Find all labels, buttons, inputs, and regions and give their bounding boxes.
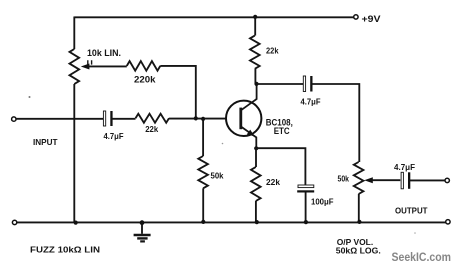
ground symbol [141, 223, 143, 234]
node: emitter 22k / rail [255, 220, 259, 224]
scan speck [414, 232, 416, 234]
potentiometer VR2 50k LOG (volume) [354, 162, 364, 194]
wire: volume pot to bottom rail [358, 194, 360, 222]
svg-text:4.7μF: 4.7μF [394, 162, 415, 172]
svg-text:100μF: 100μF [311, 197, 334, 207]
wiper arrow of 50k pot [364, 177, 373, 183]
capacitor C4 4.7uF (output) [401, 172, 403, 189]
resistor 22k (input/base) [136, 114, 170, 123]
wire: 220k to base node [160, 66, 196, 118]
resistor 220k (feedback) [127, 61, 161, 71]
wire: C1 to 22k [112, 118, 136, 120]
svg-text:220k: 220k [134, 75, 157, 85]
Q1 base bar [239, 108, 242, 130]
wire: wiper to C4 [372, 179, 401, 181]
node: ground symbol junction [140, 220, 145, 225]
OUTPUT terminal [445, 178, 449, 182]
svg-text:22k: 22k [266, 46, 279, 56]
scan speck [222, 143, 224, 145]
Q1 collector lead [242, 84, 257, 110]
wire: left vertical from top rail to fuzz pot [73, 17, 75, 50]
svg-text:10k LIN.: 10k LIN. [87, 48, 121, 58]
svg-text:INPUT: INPUT [33, 137, 58, 147]
wiper arrow of 10k pot [81, 64, 90, 70]
capacitor C1 4.7uF (input) [103, 111, 105, 126]
resistor 22k (collector load) [250, 36, 260, 69]
node: 100uF / rail [304, 220, 308, 224]
svg-text:FUZZ 10kΩ LIN: FUZZ 10kΩ LIN [30, 245, 100, 255]
INPUT terminal [12, 117, 16, 121]
svg-text:50k: 50k [211, 171, 224, 181]
node: 50k bias junction [201, 117, 205, 121]
svg-text:SeekIC.com: SeekIC.com [392, 250, 452, 264]
node: emitter [254, 146, 258, 150]
wire: 22k to collector node [254, 69, 256, 84]
node: 220k junction [194, 116, 198, 120]
svg-text:50kΩ LOG.: 50kΩ LOG. [336, 246, 381, 256]
svg-text:22k: 22k [145, 124, 158, 134]
resistor 22k (emitter) [251, 167, 261, 201]
wire: base node down to 50k [202, 119, 204, 156]
scan speck [29, 96, 31, 98]
node: 50k bias / rail [201, 220, 205, 224]
svg-text:22k: 22k [266, 177, 280, 187]
wire: top rail node down to 22k collector load [253, 15, 257, 19]
potentiometer VR1 10k LIN (fuzz) [70, 49, 80, 84]
bottom right terminal [446, 220, 450, 224]
Q1 emitter lead [242, 127, 257, 148]
wire: collector node to C2 [257, 83, 305, 85]
+9V terminal [354, 15, 358, 19]
wire: 100uF to bottom rail [305, 193, 307, 223]
capacitor C2 4.7uF (collector out) [303, 76, 305, 92]
top supply rail wire [74, 16, 354, 18]
capacitor C3 100uF (emitter bypass) [298, 185, 314, 188]
wiper tick mark [88, 60, 92, 64]
resistor 50k (bias to ground) [198, 156, 208, 188]
wire: fuzz pot to bottom rail [73, 84, 75, 223]
wire: C2 right, down to volume pot [311, 84, 359, 162]
svg-text:OUTPUT: OUTPUT [395, 205, 428, 215]
wire: input to C1 [16, 118, 104, 120]
wire: emitter node right to 100uF [256, 148, 305, 185]
wire: 50k to bottom rail [202, 188, 204, 222]
wire: 22k to transistor base [169, 118, 226, 120]
svg-text:4.7μF: 4.7μF [104, 131, 124, 141]
svg-text:ETC: ETC [274, 126, 290, 136]
svg-text:4.7μF: 4.7μF [301, 97, 321, 107]
wire: C4 to output terminal [410, 179, 445, 181]
bottom left terminal [12, 220, 16, 224]
transistor Q1 BC108 [226, 101, 261, 136]
svg-text:+9V: +9V [362, 14, 381, 24]
Q1 emitter arrowhead [247, 130, 255, 137]
wire: emitter node to 22k emitter resistor [255, 148, 257, 167]
wire: wiper to 220k [88, 65, 127, 67]
node: fuzz pot / rail [74, 221, 78, 225]
node: collector [254, 82, 258, 86]
bottom ground rail wire [17, 221, 446, 223]
svg-text:50k: 50k [338, 174, 350, 184]
node: volume pot / rail [357, 220, 361, 224]
wire: emitter 22k to bottom rail [255, 201, 257, 222]
